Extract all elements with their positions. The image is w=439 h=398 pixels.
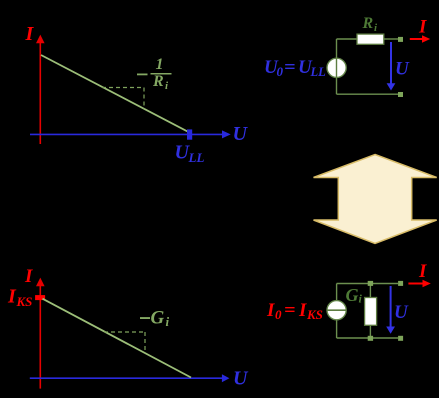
slope triangle dashed (bottom graph)	[104, 332, 145, 353]
tick ULL on U axis	[187, 129, 192, 139]
voltage source U0 (circle)	[327, 58, 346, 77]
current arrow I (top circuit)	[410, 35, 430, 43]
label Gi	[346, 285, 363, 306]
axis U (top graph x-axis)	[30, 130, 231, 138]
svg-text:i: i	[359, 292, 363, 306]
svg-text:G: G	[151, 308, 165, 329]
wire bottom (top circuit)	[337, 93, 399, 95]
svg-text:0: 0	[277, 64, 284, 79]
label -1/Ri slope (top graph)	[137, 56, 172, 92]
wire left vertical top (bottom circuit)	[336, 284, 338, 301]
axis I (bottom graph y-axis)	[36, 278, 45, 389]
svg-text:I: I	[298, 300, 307, 321]
wire Gi branch top	[369, 284, 371, 299]
label IKS (y-axis value)	[7, 286, 32, 310]
svg-text:KS: KS	[306, 307, 323, 322]
wire left vertical bottom (bottom circuit)	[336, 320, 338, 338]
conductance Gi (rect)	[365, 298, 377, 326]
label U0 = ULL (source voltage)	[264, 57, 326, 79]
axis I (top graph y-axis)	[36, 35, 45, 144]
svg-text:i: i	[166, 314, 170, 329]
svg-text:U: U	[394, 302, 409, 323]
svg-text:1: 1	[156, 56, 164, 73]
svg-text:R: R	[152, 73, 164, 90]
svg-text:KS: KS	[16, 294, 33, 309]
current source I0 (circle with bar)	[327, 301, 346, 320]
svg-text:0: 0	[275, 307, 282, 322]
svg-text:I: I	[266, 300, 275, 321]
terminal bottom (bottom circuit)	[398, 336, 403, 341]
svg-text:I: I	[25, 23, 35, 45]
voltage arrow U (bottom circuit)	[386, 286, 395, 334]
load line (bottom graph)	[43, 299, 192, 378]
svg-text:i: i	[374, 22, 378, 34]
label I0 = IKS (source current)	[266, 300, 323, 322]
terminal top (top circuit)	[398, 37, 403, 42]
wire left vertical (top circuit)	[336, 39, 338, 94]
terminal top (bottom circuit)	[398, 281, 403, 286]
svg-text:LL: LL	[188, 150, 205, 165]
svg-text:I: I	[418, 16, 427, 37]
svg-text:G: G	[346, 285, 359, 305]
junction Gi bottom	[368, 336, 373, 341]
svg-text:LL: LL	[310, 65, 327, 79]
current arrow I (bottom circuit)	[408, 280, 430, 288]
svg-text:i: i	[165, 80, 169, 92]
svg-text:=: =	[284, 300, 296, 321]
load line (top graph)	[41, 55, 189, 132]
wire resistor to terminal (top circuit)	[384, 38, 398, 40]
axis U (bottom graph x-axis)	[30, 374, 230, 382]
svg-text:I: I	[7, 286, 17, 308]
voltage arrow U (top circuit)	[387, 42, 396, 91]
svg-text:U: U	[233, 123, 249, 145]
label ULL	[175, 142, 205, 166]
wire top (top circuit)	[337, 38, 358, 40]
slope triangle dashed (top graph)	[102, 88, 144, 110]
svg-text:R: R	[362, 15, 374, 32]
label Ri	[362, 15, 379, 34]
label -Gi slope (bottom graph)	[140, 308, 170, 330]
svg-text:U: U	[233, 368, 249, 390]
wire top (bottom circuit)	[337, 283, 398, 285]
tick IKS on I axis	[35, 295, 45, 300]
svg-text:=: =	[284, 57, 296, 78]
equivalence double arrow	[314, 155, 437, 244]
svg-text:U: U	[395, 59, 410, 80]
junction Gi top	[368, 281, 373, 286]
terminal bottom (top circuit)	[398, 92, 403, 97]
svg-text:I: I	[418, 261, 427, 282]
svg-text:I: I	[24, 266, 33, 287]
resistor Ri	[357, 34, 384, 44]
wire Gi branch bottom	[369, 325, 371, 338]
wire bottom (bottom circuit)	[337, 337, 398, 339]
